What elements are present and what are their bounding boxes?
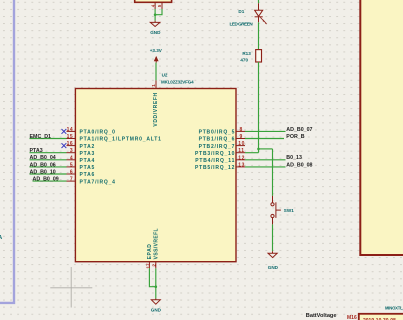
wire AD_B0_06: [30, 166, 67, 168]
svg-text:A: A: [0, 235, 2, 241]
component (bottom-right, partial): [359, 314, 403, 320]
pin 4 (top component): [154, 2, 156, 9]
junction: [257, 148, 260, 151]
svg-text:PTA2: PTA2: [80, 144, 96, 150]
wire LED to R13: [258, 22, 260, 49]
right pin numbers: [238, 127, 245, 169]
wire B0_13: [245, 159, 286, 161]
svg-text:4: 4: [70, 155, 73, 161]
svg-text:15: 15: [67, 134, 74, 140]
svg-text:SW1: SW1: [284, 208, 294, 213]
svg-text:GND: GND: [150, 30, 161, 35]
left pin names: [80, 130, 162, 186]
junction: [154, 13, 157, 16]
svg-text:AD_B0_10: AD_B0_10: [30, 169, 56, 175]
svg-text:5: 5: [70, 162, 73, 168]
svg-text:PTB5/IRQ_12: PTB5/IRQ_12: [195, 165, 235, 171]
svg-text:8: 8: [240, 127, 243, 133]
svg-text:10: 10: [238, 141, 245, 147]
svg-text:BattVoltage: BattVoltage: [306, 313, 337, 319]
svg-text:16: 16: [67, 141, 74, 147]
hierarchical sheet (right, partial): [360, 0, 403, 255]
wire R13 down to pin 11: [258, 62, 260, 153]
svg-text:EMC_D1: EMC_D1: [30, 134, 52, 140]
wire: [155, 9, 162, 15]
svg-text:GND: GND: [151, 308, 162, 313]
svg-text:B0_13: B0_13: [286, 155, 302, 161]
wire branch to SW1 column: [259, 148, 273, 150]
pin 5 (top component): [161, 2, 163, 9]
svg-text:PTA3: PTA3: [80, 151, 96, 157]
wire AD_B0_07: [245, 130, 286, 132]
svg-text:GND: GND: [268, 265, 279, 270]
junction: [155, 285, 158, 288]
switch SW1: [271, 196, 281, 225]
svg-text:M16: M16: [347, 315, 357, 320]
svg-text:3: 3: [70, 148, 73, 154]
svg-text:EPAD: EPAD: [147, 243, 153, 259]
wire EMC_D1: [30, 138, 67, 140]
wire AD_B0_09: [33, 180, 67, 182]
svg-text:AD_B0_08: AD_B0_08: [286, 162, 312, 168]
ground (top): [150, 21, 160, 27]
svg-text:AD_B0_04: AD_B0_04: [30, 155, 56, 161]
left pin numbers: [67, 127, 74, 183]
wire EPAD to VSS: [149, 268, 155, 286]
svg-text:AD_B0_09: AD_B0_09: [33, 177, 59, 183]
ground (IC): [151, 299, 160, 305]
svg-text:PTB0/IRQ_5: PTB0/IRQ_5: [199, 130, 236, 136]
wire AD_B0_08: [245, 166, 286, 168]
svg-text:VDD/VREFH: VDD/VREFH: [153, 92, 159, 126]
main IC U2 body: [75, 89, 236, 262]
svg-text:PTA4: PTA4: [80, 158, 96, 164]
wire AD_B0_10: [30, 173, 67, 175]
wire down to SW1: [272, 149, 274, 196]
svg-text:POR_B: POR_B: [286, 134, 304, 140]
right pin stubs: [236, 131, 245, 167]
pin 1 VDD/VREFH: [155, 80, 157, 88]
svg-text:U2: U2: [162, 72, 168, 77]
resistor R13: [256, 50, 262, 62]
component (top, partial symbol): [135, 0, 172, 2]
svg-text:PTA5: PTA5: [80, 165, 96, 171]
svg-text:PTA0/IRQ_0: PTA0/IRQ_0: [80, 130, 116, 136]
svg-text:PTB4/IRQ_11: PTB4/IRQ_11: [195, 158, 235, 164]
svg-text:AD_B0_06: AD_B0_06: [30, 162, 56, 168]
wire PTA3: [30, 152, 67, 154]
no-connect X pin 14: [62, 129, 67, 134]
svg-text:VSS/VREFL: VSS/VREFL: [153, 228, 159, 259]
LED D1: [255, 3, 267, 23]
svg-text:AD_B0_07: AD_B0_07: [286, 127, 312, 133]
svg-text:MINOXTL,: MINOXTL,: [385, 306, 403, 311]
wire (top of LED branch): [258, 0, 260, 3]
wire AD_B0_04: [30, 159, 67, 161]
svg-text:R13: R13: [242, 51, 251, 56]
svg-text:PTA3: PTA3: [30, 148, 43, 154]
wire POR_B: [245, 138, 284, 140]
svg-text:9: 9: [240, 134, 243, 140]
svg-text:PTA1/IRQ_1/LPTMR0_ALT1: PTA1/IRQ_1/LPTMR0_ALT1: [80, 137, 162, 143]
svg-text:PTB3/IRQ_10: PTB3/IRQ_10: [195, 151, 235, 157]
svg-text:+3.3V: +3.3V: [150, 48, 163, 53]
wire SW1 to GND: [272, 224, 274, 251]
svg-text:1: 1: [151, 84, 156, 87]
svg-text:17: 17: [146, 263, 151, 269]
svg-text:D1: D1: [238, 9, 244, 14]
wire: [155, 63, 157, 81]
svg-text:PTB2/IRQ_7: PTB2/IRQ_7: [199, 144, 236, 150]
pin 17 EPAD: [148, 262, 150, 268]
left pin stubs: [67, 131, 76, 181]
svg-text:PTA6: PTA6: [80, 172, 96, 178]
svg-text:MKL02Z32VFG4: MKL02Z32VFG4: [161, 80, 194, 85]
svg-text:470: 470: [240, 57, 248, 62]
svg-text:LED GREEN: LED GREEN: [230, 21, 254, 26]
svg-text:11: 11: [238, 148, 244, 154]
svg-text:12: 12: [238, 155, 245, 161]
svg-text:PTB1/IRQ_6: PTB1/IRQ_6: [199, 137, 236, 143]
wire VSS down: [155, 268, 157, 298]
wire pin11 to R13 node: [245, 152, 259, 154]
svg-text:PTA7/IRQ_4: PTA7/IRQ_4: [80, 179, 116, 185]
svg-text:14: 14: [67, 127, 74, 133]
wire: [154, 9, 156, 21]
svg-text:13: 13: [238, 162, 245, 168]
ground (SW1): [268, 251, 277, 257]
no-connect X pin 16: [62, 143, 67, 148]
pin 2 VSS: [155, 262, 157, 268]
crosshair cursor: [50, 267, 92, 308]
hierarchical sheet (left, partial): [0, 0, 14, 303]
svg-text:6: 6: [70, 170, 73, 176]
svg-text:7: 7: [70, 177, 73, 183]
svg-text:2: 2: [151, 264, 156, 267]
right pin names: [195, 130, 235, 172]
